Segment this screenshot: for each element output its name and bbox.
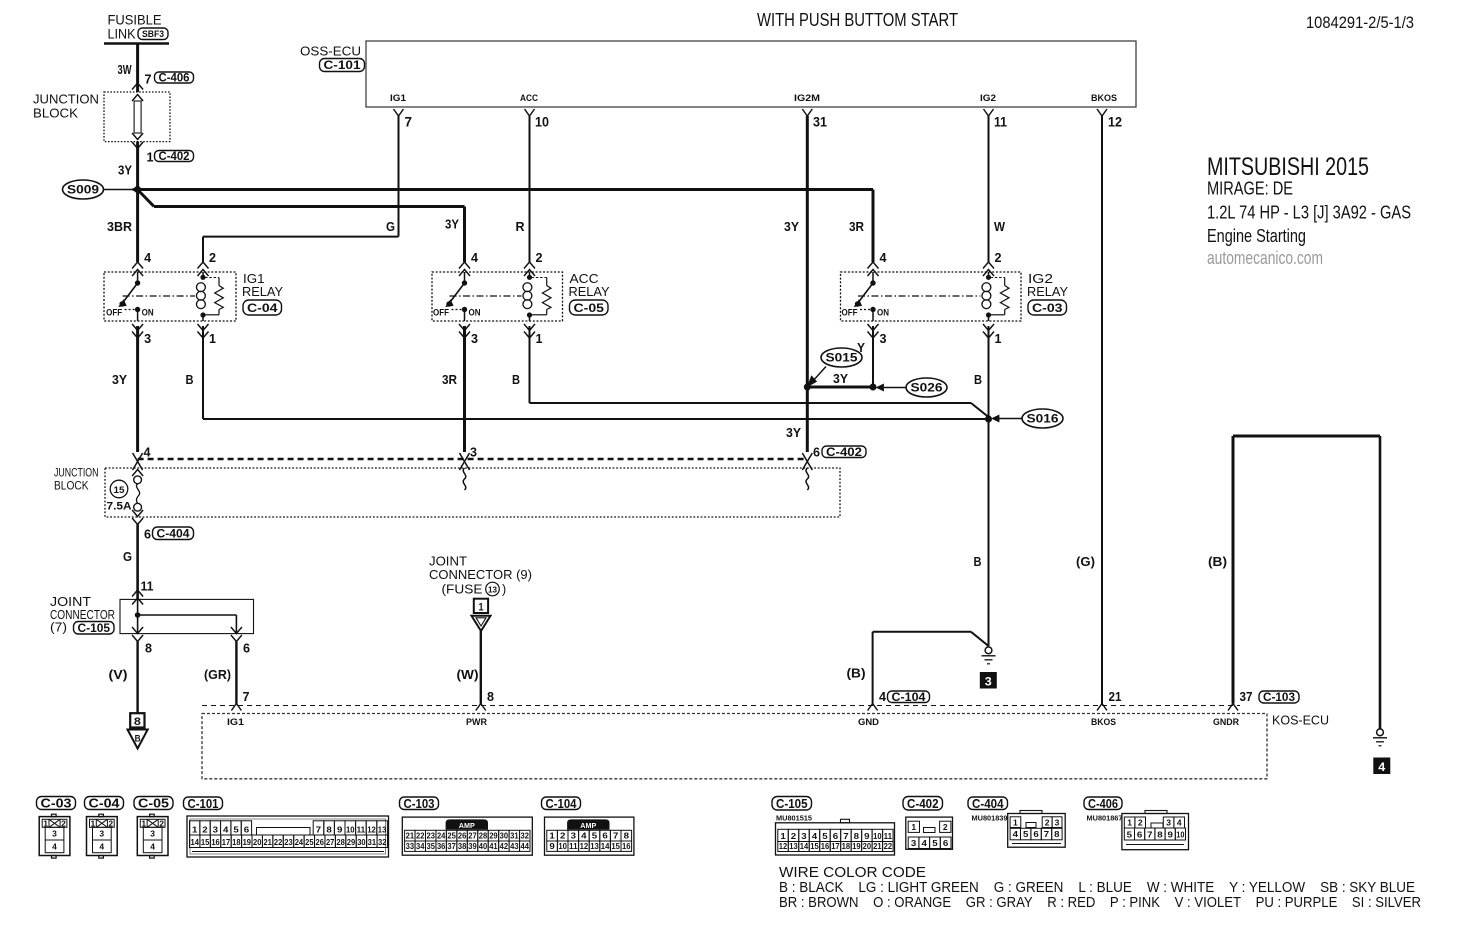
svg-text:JOINT: JOINT (429, 555, 467, 569)
svg-text:C-402: C-402 (907, 797, 939, 811)
fuse 15 (7.5A) in junction block (132, 470, 143, 477)
svg-text:4: 4 (581, 830, 587, 840)
fusible link bus bar (104, 42, 169, 45)
svg-text:8: 8 (326, 824, 332, 834)
svg-text:1: 1 (209, 331, 216, 346)
svg-text:OFF: OFF (433, 308, 449, 318)
svg-text:JUNCTION: JUNCTION (54, 468, 99, 480)
svg-text:26: 26 (458, 830, 467, 840)
svg-text:3Y: 3Y (445, 217, 459, 232)
svg-text:15: 15 (114, 485, 126, 496)
svg-text:4: 4 (879, 689, 887, 704)
svg-text:BKOS: BKOS (1091, 93, 1117, 104)
svg-text:27: 27 (326, 837, 335, 847)
connector C-402 dashed line (138, 458, 808, 460)
svg-text:): ) (502, 583, 506, 597)
svg-text:(B): (B) (1208, 554, 1227, 569)
svg-text:RELAY: RELAY (242, 285, 284, 299)
svg-text:15: 15 (810, 841, 819, 851)
wire from OSS-ECU BKOS to KOS-ECU pin 21 (1101, 116, 1103, 704)
svg-text:6: 6 (244, 824, 250, 834)
svg-text:16: 16 (821, 841, 830, 851)
svg-text:1: 1 (141, 818, 146, 828)
svg-text:4: 4 (1013, 829, 1019, 839)
svg-text:8: 8 (1054, 829, 1060, 839)
svg-text:5: 5 (1127, 829, 1133, 839)
svg-text:2: 2 (1138, 818, 1143, 828)
svg-text:42: 42 (500, 841, 509, 851)
wire B ground branch to KOS-ECU GND (873, 631, 971, 633)
svg-text:23: 23 (427, 830, 436, 840)
svg-text:(GR): (GR) (204, 667, 231, 682)
connector pinout C-05 (134, 797, 173, 810)
svg-text:G: G (386, 219, 395, 234)
svg-text:C-104: C-104 (892, 692, 927, 704)
svg-text:6: 6 (1033, 829, 1039, 839)
svg-text:1084291-2/5-1/3: 1084291-2/5-1/3 (1306, 13, 1414, 32)
svg-text:23: 23 (284, 837, 293, 847)
svg-text:20: 20 (863, 841, 872, 851)
svg-text:WITH PUSH BUTTOM START: WITH PUSH BUTTOM START (757, 9, 958, 30)
svg-text:BLOCK: BLOCK (33, 107, 79, 121)
svg-text:C-101: C-101 (324, 60, 362, 72)
svg-text:ON: ON (142, 308, 154, 318)
svg-text:10: 10 (873, 831, 882, 841)
splice S015 (821, 348, 862, 367)
svg-text:2: 2 (995, 250, 1002, 265)
svg-text:BR : BROWN O : ORANGE GR: BR : BROWN O : ORANGE GR : GRAY R : RED … (779, 894, 1421, 911)
svg-text:1: 1 (1013, 817, 1018, 827)
svg-text:9: 9 (1168, 829, 1174, 839)
connector pinout C-04 (85, 797, 124, 810)
svg-text:25: 25 (447, 830, 456, 840)
body ground 8 symbol (130, 713, 144, 727)
svg-text:29: 29 (489, 830, 498, 840)
svg-text:AMP: AMP (580, 823, 596, 830)
svg-text:ACC: ACC (520, 93, 538, 104)
svg-text:14: 14 (191, 837, 200, 847)
wire GR to KOS-ECU pin 7 (235, 642, 237, 704)
svg-text:6: 6 (1137, 829, 1143, 839)
svg-text:1: 1 (1127, 818, 1132, 828)
svg-text:BLOCK: BLOCK (54, 481, 89, 493)
svg-text:S016: S016 (1027, 412, 1059, 426)
svg-text:25: 25 (305, 837, 314, 847)
svg-text:8: 8 (487, 689, 494, 704)
wire B IG2 relay pin 1 down to grounds (988, 326, 990, 646)
svg-text:1: 1 (43, 818, 48, 828)
svg-text:1: 1 (995, 331, 1002, 346)
connector pinout C-101 (184, 797, 223, 810)
junction block pass-through symbol (132, 95, 143, 102)
svg-text:3: 3 (471, 331, 478, 346)
KOS-ECU pin PWR (8) (476, 704, 486, 711)
KOS-ECU connector dashed line (202, 705, 1240, 707)
svg-text:C-404: C-404 (972, 797, 1004, 811)
svg-text:G: G (123, 549, 132, 564)
svg-text:IG2M: IG2M (794, 93, 820, 104)
svg-text:JUNCTION: JUNCTION (33, 93, 99, 107)
svg-text:36: 36 (437, 841, 446, 851)
svg-text:5: 5 (932, 838, 938, 848)
svg-text:3Y: 3Y (784, 219, 799, 234)
svg-text:(B): (B) (847, 666, 866, 681)
svg-text:RELAY: RELAY (569, 285, 611, 299)
svg-text:B: B (974, 554, 982, 569)
svg-text:27: 27 (468, 830, 477, 840)
svg-text:11: 11 (357, 824, 366, 834)
svg-text:1: 1 (780, 831, 786, 841)
svg-text:OFF: OFF (106, 308, 122, 318)
svg-text:31: 31 (510, 830, 519, 840)
svg-text:IG2: IG2 (980, 93, 996, 104)
wire 3W fusible link to junction block (136, 44, 139, 93)
svg-text:7: 7 (1147, 829, 1153, 839)
svg-text:B: B (186, 372, 194, 387)
svg-text:2: 2 (202, 824, 208, 834)
svg-text:1.2L 74 HP - L3 [J] 3A92 - GAS: 1.2L 74 HP - L3 [J] 3A92 - GAS (1207, 202, 1411, 223)
svg-text:11: 11 (994, 115, 1007, 130)
svg-text:7: 7 (1044, 829, 1050, 839)
svg-text:OSS-ECU: OSS-ECU (300, 44, 361, 59)
svg-text:13: 13 (488, 585, 498, 594)
svg-text:CONNECTOR (9): CONNECTOR (9) (429, 568, 532, 582)
svg-text:40: 40 (479, 841, 488, 851)
svg-text:S026: S026 (911, 381, 943, 395)
svg-text:RELAY: RELAY (1027, 285, 1069, 299)
svg-text:8: 8 (134, 716, 141, 728)
svg-text:11: 11 (141, 579, 154, 594)
svg-text:19: 19 (852, 841, 861, 851)
svg-text:7: 7 (843, 831, 849, 841)
svg-text:5: 5 (592, 830, 598, 840)
svg-text:18: 18 (842, 841, 851, 851)
svg-text:OFF: OFF (842, 308, 858, 318)
svg-text:MU801515: MU801515 (776, 814, 812, 823)
svg-text:15: 15 (611, 841, 620, 851)
svg-text:5: 5 (1023, 829, 1029, 839)
svg-text:32: 32 (521, 830, 530, 840)
svg-text:6: 6 (144, 527, 151, 542)
svg-text:C-105: C-105 (78, 623, 111, 635)
svg-text:3Y: 3Y (786, 425, 801, 440)
svg-text:30: 30 (500, 830, 509, 840)
svg-text:29: 29 (347, 837, 356, 847)
svg-text:21: 21 (406, 830, 415, 840)
svg-text:7.5A: 7.5A (107, 501, 132, 513)
svg-text:8: 8 (145, 641, 152, 656)
svg-text:7: 7 (243, 689, 250, 704)
svg-text:C-03: C-03 (41, 797, 72, 811)
svg-text:C-04: C-04 (247, 301, 278, 315)
svg-text:8: 8 (1157, 829, 1163, 839)
svg-text:22: 22 (884, 841, 893, 851)
svg-text:IG1: IG1 (390, 93, 407, 104)
svg-text:15: 15 (201, 837, 210, 847)
svg-text:2: 2 (560, 830, 566, 840)
svg-text:LINK: LINK (108, 27, 136, 42)
svg-text:GNDR: GNDR (1213, 717, 1239, 728)
svg-text:3: 3 (52, 829, 57, 839)
connector pinout C-104 (542, 797, 581, 810)
svg-text:C-03: C-03 (1032, 301, 1063, 315)
svg-text:2: 2 (159, 818, 164, 828)
svg-text:39: 39 (468, 841, 477, 851)
wire 3Y from OSS-ECU IG2M down to splice S015 (806, 116, 809, 387)
svg-text:C-104: C-104 (546, 797, 577, 811)
svg-text:4: 4 (880, 250, 888, 265)
svg-text:B: B (135, 734, 141, 745)
wire 3R ACC relay pin 3 to junction block (463, 326, 466, 452)
wire G from OSS-ECU IG1 to IG1 relay coil (398, 116, 400, 237)
svg-text:R: R (516, 219, 526, 234)
svg-text:21: 21 (873, 841, 882, 851)
svg-text:8: 8 (624, 830, 630, 840)
svg-text:C-05: C-05 (138, 797, 169, 811)
svg-text:3R: 3R (442, 372, 458, 387)
svg-text:12: 12 (580, 841, 589, 851)
svg-text:3R: 3R (849, 219, 865, 234)
svg-text:16: 16 (211, 837, 220, 847)
svg-text:1: 1 (147, 150, 154, 165)
svg-text:3: 3 (213, 824, 219, 834)
wire B IG1 relay pin 1 ground run (202, 326, 204, 419)
wire Y IG2 relay pin 3 to splice S015 (872, 326, 874, 387)
svg-text:MU801867: MU801867 (1087, 814, 1123, 823)
svg-text:10: 10 (558, 841, 567, 851)
svg-text:5: 5 (233, 824, 239, 834)
svg-text:13: 13 (378, 824, 387, 834)
splice S016 (985, 416, 992, 423)
svg-text:21: 21 (1109, 689, 1122, 704)
svg-text:6: 6 (602, 830, 608, 840)
wire 3Y junction block to S009 (136, 142, 139, 190)
svg-text:3: 3 (571, 830, 577, 840)
svg-text:3Y: 3Y (118, 163, 132, 178)
KOS-ECU pin BKOS (21) (1097, 704, 1107, 711)
svg-text:28: 28 (336, 837, 345, 847)
svg-text:2: 2 (791, 831, 797, 841)
chassis ground 3 (985, 647, 992, 654)
svg-text:2: 2 (1045, 817, 1050, 827)
svg-text:FUSIBLE: FUSIBLE (108, 13, 162, 28)
svg-text:SBF3: SBF3 (142, 29, 164, 40)
svg-text:ON: ON (877, 308, 889, 318)
OSS-ECU box (366, 41, 1136, 107)
svg-text:12: 12 (367, 824, 376, 834)
svg-text:(G): (G) (1076, 554, 1095, 569)
svg-text:C-103: C-103 (1263, 692, 1295, 704)
connector pinout C-404 (968, 797, 1008, 810)
svg-text:C-04: C-04 (89, 797, 120, 811)
svg-text:14: 14 (800, 841, 809, 851)
svg-text:C-402: C-402 (826, 447, 862, 459)
wire R from OSS-ECU ACC to ACC relay coil (529, 116, 531, 262)
svg-text:4: 4 (52, 842, 57, 852)
svg-text:7: 7 (316, 824, 322, 834)
junction block internal circuit squiggle (pin 3) (463, 468, 466, 490)
svg-text:MIRAGE: DE: MIRAGE: DE (1207, 178, 1293, 199)
svg-text:AMP: AMP (459, 823, 475, 830)
svg-text:32: 32 (378, 837, 387, 847)
splice S009 (63, 180, 104, 199)
connector pinout C-03 (37, 797, 76, 810)
svg-text:26: 26 (316, 837, 325, 847)
svg-text:31: 31 (368, 837, 377, 847)
svg-text:9: 9 (337, 824, 343, 834)
wire 3Y link S015 to S026 (807, 386, 873, 389)
connector pinout C-406 (1084, 797, 1122, 810)
KOS-ECU box (202, 714, 1267, 779)
wire B KOS-ECU GNDR loop (1232, 436, 1235, 704)
svg-text:13: 13 (590, 841, 599, 851)
wire B ACC relay pin 1 ground run (529, 326, 531, 403)
svg-text:3: 3 (801, 831, 807, 841)
svg-text:3Y: 3Y (112, 372, 127, 387)
junction block internal circuit squiggle (pin 6) (806, 468, 809, 490)
svg-text:1: 1 (911, 822, 916, 832)
svg-text:1: 1 (91, 818, 96, 828)
svg-text:28: 28 (479, 830, 488, 840)
wire 3Y from S015 down to junction block C-402 pin 6 (806, 387, 809, 452)
svg-text:17: 17 (222, 837, 231, 847)
svg-text:6: 6 (243, 641, 250, 656)
wire 3Y IG1 relay pin 3 to junction block fuse 15 (136, 326, 139, 452)
svg-text:automecanico.com: automecanico.com (1207, 247, 1323, 268)
svg-text:6: 6 (943, 838, 949, 848)
svg-text:3: 3 (1055, 817, 1060, 827)
splice S026 (870, 384, 877, 391)
svg-text:ON: ON (469, 308, 481, 318)
wire G junction block to joint connector C-105 (136, 525, 139, 600)
svg-text:13: 13 (789, 841, 798, 851)
svg-text:10: 10 (346, 824, 355, 834)
svg-text:JOINT: JOINT (50, 595, 91, 609)
svg-text:3Y: 3Y (833, 371, 848, 386)
svg-text:11: 11 (569, 841, 578, 851)
junction block (top) box (104, 92, 170, 142)
svg-text:1: 1 (479, 602, 484, 614)
svg-text:C-406: C-406 (159, 73, 190, 85)
svg-text:Engine Starting: Engine Starting (1207, 225, 1306, 246)
svg-text:43: 43 (510, 841, 519, 851)
relay ACC (C-05) (432, 272, 563, 321)
svg-text:2: 2 (108, 818, 113, 828)
svg-text:22: 22 (416, 830, 425, 840)
connector pinout C-402 (903, 797, 943, 811)
svg-text:W: W (994, 219, 1006, 234)
svg-text:(7): (7) (50, 621, 67, 635)
svg-text:11: 11 (884, 831, 893, 841)
svg-text:18: 18 (232, 837, 241, 847)
svg-text:4: 4 (812, 831, 818, 841)
svg-text:B: B (512, 372, 520, 387)
svg-text:6: 6 (833, 831, 839, 841)
svg-text:(W): (W) (457, 667, 479, 682)
svg-text:34: 34 (416, 841, 425, 851)
wire W from OSS-ECU IG2 to IG2 relay coil (988, 116, 990, 262)
svg-text:C-05: C-05 (574, 301, 605, 315)
svg-text:5: 5 (822, 831, 828, 841)
svg-text:KOS-ECU: KOS-ECU (1272, 713, 1329, 728)
svg-text:16: 16 (622, 841, 631, 851)
svg-text:9: 9 (549, 841, 555, 851)
svg-text:C-101: C-101 (188, 797, 219, 811)
svg-text:3: 3 (99, 829, 104, 839)
joint connector C-105 internal link (137, 599, 139, 633)
svg-text:C-406: C-406 (1088, 797, 1118, 811)
KOS-ECU pin GNDR (37 C-103) (1228, 704, 1238, 711)
svg-text:37: 37 (1240, 689, 1253, 704)
svg-text:37: 37 (447, 841, 456, 851)
svg-text:7: 7 (145, 72, 152, 87)
svg-text:C-105: C-105 (776, 797, 808, 811)
wire from S009 to ACC relay pin 4 (3Y) (137, 189, 155, 207)
svg-text:BKOS: BKOS (1091, 717, 1116, 728)
wire from S009 to IG2 relay pin 4 (3R) (138, 188, 873, 191)
relay IG1 (C-04) (104, 272, 236, 321)
relay IG2 (C-03) (841, 272, 1022, 321)
svg-text:4: 4 (144, 250, 152, 265)
svg-text:MU801839: MU801839 (972, 814, 1008, 823)
svg-text:3BR: 3BR (107, 219, 133, 234)
chassis ground 4 (1377, 729, 1384, 736)
svg-text:8: 8 (854, 831, 860, 841)
joint connector (7) C-105 box (132, 590, 143, 597)
svg-text:10: 10 (1176, 829, 1184, 839)
svg-text:3: 3 (880, 331, 887, 346)
svg-text:2: 2 (943, 822, 948, 832)
svg-text:33: 33 (406, 841, 415, 851)
svg-text:21: 21 (263, 837, 272, 847)
svg-text:10: 10 (535, 115, 549, 130)
connector pinout C-105 (772, 797, 812, 811)
svg-text:1: 1 (192, 824, 198, 834)
svg-text:B: B (974, 372, 982, 387)
svg-text:C-103: C-103 (404, 797, 435, 811)
KOS-ECU pin GND (4 C-104) (868, 704, 878, 711)
svg-text:4: 4 (150, 842, 155, 852)
svg-text:20: 20 (253, 837, 262, 847)
svg-text:4: 4 (99, 842, 104, 852)
svg-text:7: 7 (613, 830, 619, 840)
svg-text:(FUSE: (FUSE (442, 583, 483, 597)
svg-text:9: 9 (864, 831, 870, 841)
wire W joint connector 9 to KOS-ECU PWR (480, 631, 482, 704)
svg-text:2: 2 (61, 818, 66, 828)
svg-text:3: 3 (144, 331, 151, 346)
svg-text:12: 12 (1108, 115, 1122, 130)
svg-text:PWR: PWR (466, 717, 487, 728)
svg-text:35: 35 (427, 841, 436, 851)
svg-text:IG2: IG2 (1028, 272, 1053, 286)
svg-text:12: 12 (779, 841, 788, 851)
svg-text:GND: GND (858, 717, 879, 728)
junction block (lower) box (105, 468, 840, 517)
svg-text:1: 1 (549, 830, 555, 840)
svg-text:3: 3 (150, 829, 155, 839)
wire 3BR main feed down to IG1 relay pin 4 (136, 190, 139, 263)
svg-text:3: 3 (911, 838, 917, 848)
svg-text:C-404: C-404 (157, 528, 191, 540)
svg-text:2: 2 (536, 250, 543, 265)
KOS-ECU pin IG1 (7) (231, 704, 241, 711)
connector pinout C-103 (400, 797, 439, 810)
svg-text:44: 44 (521, 841, 530, 851)
svg-text:31: 31 (813, 115, 827, 130)
svg-text:4: 4 (1378, 760, 1385, 774)
svg-text:4: 4 (223, 824, 229, 834)
